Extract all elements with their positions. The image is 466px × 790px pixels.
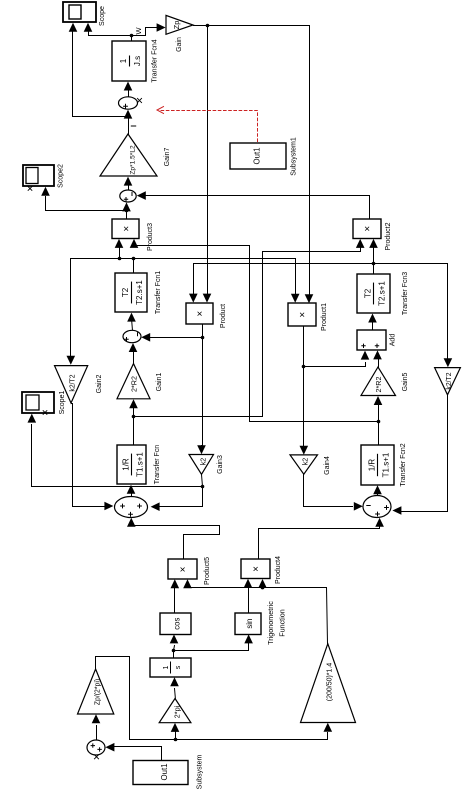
svg-text:Gain7: Gain7 <box>164 148 171 167</box>
svg-text:Product5: Product5 <box>204 557 211 585</box>
product block Product4 <box>241 559 270 579</box>
wire (200/50)*1.4 out to Product4 and Product5 <box>188 586 328 644</box>
svg-text:s: s <box>175 665 182 669</box>
svg-text:W: W <box>134 27 143 35</box>
sum junction Sum5 <box>363 496 391 518</box>
transfer function block Transfer Fcn1 <box>115 273 147 312</box>
svg-text:1/R: 1/R <box>122 458 131 471</box>
wire red dashed from Subsystem1 <box>161 111 258 142</box>
outport block Out1 of Subsystem1 <box>230 143 286 169</box>
trigonometry block sin Trigonometric Function <box>235 613 261 635</box>
svg-text:×: × <box>363 226 374 232</box>
svg-text:T1.s+1: T1.s+1 <box>136 452 145 477</box>
wire Transfer Fcn out to Gain1 and Product2 <box>133 405 135 446</box>
gain block Gain4 (k2) <box>290 455 318 474</box>
wire Transfer Fcn1 out line <box>133 259 135 274</box>
svg-text:Scope: Scope <box>99 6 106 26</box>
sign minus for Sum1 lower input <box>131 125 135 127</box>
wire Sum5 out to Transfer Fcn2 <box>377 491 379 496</box>
product block Product5 <box>168 559 197 579</box>
svg-text:Trigonometric: Trigonometric <box>266 601 275 645</box>
svg-text:Product2: Product2 <box>385 222 392 250</box>
scope block Scope2 <box>23 165 54 186</box>
wire sin out to Product4 <box>248 585 250 614</box>
svg-text:Transfer Fcn3: Transfer Fcn3 <box>402 272 409 315</box>
svg-text:Transfer Fcn4: Transfer Fcn4 <box>152 39 159 82</box>
wire integrator out to cos and sin <box>174 642 249 659</box>
svg-text:Subsystem: Subsystem <box>197 755 204 790</box>
svg-text:k2/T2: k2/T2 <box>446 372 453 389</box>
svg-text:Scope1: Scope1 <box>59 391 66 415</box>
scope2 axis mark <box>28 186 32 190</box>
wire cos out to Product5 <box>174 585 176 614</box>
wire Transfer Fcn2 out to Gain5 and Product3 <box>378 402 380 446</box>
product block Product2 <box>353 219 381 239</box>
gain block Zp/(2*pi) <box>78 669 114 714</box>
scope block Scope <box>63 2 96 22</box>
svg-text:×: × <box>195 311 206 317</box>
product block Product1 <box>288 303 316 326</box>
svg-text:Subsystem1: Subsystem1 <box>291 137 298 176</box>
product block Product3 <box>112 219 139 239</box>
wire Product5 out to Sum bottom <box>132 524 220 560</box>
wire Product2 out to Sum2 right <box>142 196 370 220</box>
svg-text:Transfer Fcn1: Transfer Fcn1 <box>155 271 162 314</box>
wire Gain1 out to Sum3 <box>133 349 135 364</box>
sum junction Sum3 <box>123 330 141 342</box>
sum junction Sum1 <box>119 97 138 109</box>
wire Sum2 out to Gain7 <box>128 181 130 191</box>
wire Product out to Sum3 and Gain3 <box>202 325 203 450</box>
svg-text:T2: T2 <box>364 288 373 298</box>
wire Gain2 out to Sum left <box>72 404 109 507</box>
svg-text:2*pi: 2*pi <box>173 705 182 718</box>
unconnected port mark on Sum1 <box>137 98 142 103</box>
svg-text:Product1: Product1 <box>321 303 328 331</box>
svg-text:T2.s+1: T2.s+1 <box>378 281 387 306</box>
wire Add out to Transfer Fcn3 <box>372 319 374 331</box>
svg-text:2*R2: 2*R2 <box>374 377 383 393</box>
trigonometry block cos <box>160 613 191 635</box>
wire Sum out to Transfer Fcn <box>131 491 133 497</box>
wire Gain5 out to Add <box>378 356 380 368</box>
svg-text:1: 1 <box>119 58 128 63</box>
wire Zp/(2*pi) out distribution <box>96 657 328 740</box>
svg-text:J.s: J.s <box>133 56 142 66</box>
sum junction Sum6 <box>87 740 105 755</box>
wire Product4 out to Sum5 bottom <box>259 524 380 560</box>
svg-text:Gain1: Gain1 <box>156 373 163 392</box>
svg-text:×: × <box>251 566 262 572</box>
sum block Add <box>357 330 386 350</box>
svg-text:T1.s+1: T1.s+1 <box>382 452 391 477</box>
svg-text:T2.s+1: T2.s+1 <box>135 280 144 305</box>
svg-text:Product4: Product4 <box>275 556 282 584</box>
gain block (200/50)*1.4 <box>301 644 356 723</box>
svg-text:Transfer Fcn2: Transfer Fcn2 <box>400 443 407 486</box>
svg-text:Gain2: Gain2 <box>96 375 103 394</box>
gain block Gain (Zp) <box>166 15 193 34</box>
svg-text:Gain5: Gain5 <box>402 373 409 392</box>
wire Gain4 out to Sum5 left <box>304 475 353 507</box>
gain block Gain3 (k2) <box>189 455 214 475</box>
svg-text:Scope2: Scope2 <box>58 164 65 188</box>
svg-text:Transfer Fcn: Transfer Fcn <box>154 445 161 485</box>
wire 2*pi gain out to integrator <box>175 689 176 700</box>
svg-text:Zp: Zp <box>172 21 181 30</box>
svg-text:2*R2: 2*R2 <box>130 376 139 392</box>
gain block 2*pi <box>159 699 191 723</box>
svg-text:Zp/(2*pi): Zp/(2*pi) <box>95 679 102 705</box>
svg-text:×: × <box>298 312 309 318</box>
svg-text:(200/50)*1.4: (200/50)*1.4 <box>327 663 334 702</box>
scope1 axis mark <box>43 410 47 414</box>
wire Transfer Fcn3 out line <box>373 264 375 275</box>
gain block k2/T2 (right) <box>435 368 461 395</box>
transfer function block Transfer Fcn <box>117 445 146 484</box>
svg-text:1: 1 <box>163 665 170 669</box>
gain block Gain1 (2*R2) <box>117 364 150 399</box>
svg-text:Gain3: Gain3 <box>217 455 224 474</box>
svg-text:k2: k2 <box>301 458 310 466</box>
wire Sum6 out to Zp gain <box>96 726 98 741</box>
svg-text:Gain4: Gain4 <box>324 456 331 475</box>
wire right k2/T2 gain out to Sum5 <box>397 395 448 512</box>
svg-text:Zp*1.5*L2: Zp*1.5*L2 <box>130 145 137 175</box>
svg-text:Product3: Product3 <box>147 223 154 251</box>
wire Product3 out to Sum2 with Scope2 tap <box>126 207 128 220</box>
wire Gain Zp out junction <box>194 26 310 300</box>
transfer function block Transfer Fcn4 <box>112 41 146 81</box>
transfer function block Transfer Fcn3 <box>357 274 390 313</box>
wire Product1 out to Add and Gain4 <box>303 327 305 450</box>
svg-text:1/R: 1/R <box>368 459 377 472</box>
svg-text:×: × <box>178 566 189 572</box>
wire Gain7 out to Sum1 with Scope tap <box>128 117 130 135</box>
wire Gain3 out to Scope1 and Sum <box>202 475 203 487</box>
wire Sum3 out to Transfer Fcn1 <box>132 319 133 331</box>
unconnected port mark on Sum6 <box>94 754 99 759</box>
scope block Scope1 <box>22 392 54 413</box>
svg-text:×: × <box>122 226 133 232</box>
svg-text:Function: Function <box>278 609 287 637</box>
svg-text:Gain: Gain <box>176 37 183 52</box>
svg-text:k2/T2: k2/T2 <box>70 374 77 391</box>
svg-text:Out1: Out1 <box>160 764 169 781</box>
product block Product <box>186 303 213 324</box>
gain block Gain2 (k2/T2) <box>55 366 88 403</box>
wire Transfer Fcn4 out to Scope and Gain <box>89 28 132 42</box>
transfer function block Transfer Fcn2 <box>361 445 394 485</box>
svg-text:sin: sin <box>245 619 254 629</box>
outport block Out1 of Subsystem <box>133 761 188 785</box>
gain block Gain5 (2*R2) <box>361 367 396 396</box>
sum junction Sum (big) <box>115 497 148 518</box>
integrator block 1/s <box>150 658 191 677</box>
svg-text:k2: k2 <box>199 458 208 466</box>
svg-text:Out1: Out1 <box>253 148 262 165</box>
svg-text:Add: Add <box>390 334 397 347</box>
wire Out1 subsystem out to Sum6 <box>111 747 162 761</box>
svg-text:T2: T2 <box>121 287 130 297</box>
gain block Gain7 (Zp*1.5*L2) <box>100 134 157 176</box>
sum junction Sum2 <box>120 190 136 202</box>
svg-text:cos: cos <box>173 618 182 630</box>
wire Sum1 out to Transfer Fcn4 <box>128 86 130 97</box>
svg-text:Product: Product <box>220 304 227 328</box>
